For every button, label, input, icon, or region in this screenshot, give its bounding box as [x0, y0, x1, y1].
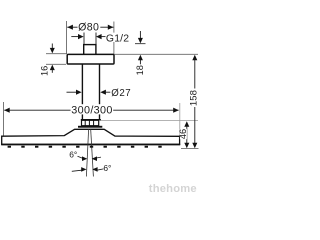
wall plate escutcheon [67, 54, 114, 64]
svg-text:158: 158 [189, 90, 200, 106]
svg-text:Ø80: Ø80 [78, 21, 99, 33]
dim 16 up arrow [50, 65, 55, 71]
dim 6deg lower left arrowhead [81, 167, 86, 172]
dim 6deg lower leader [72, 170, 82, 171]
dim 18 down arrow [139, 31, 141, 40]
nozzle row [8, 146, 162, 148]
cone nut body [82, 120, 99, 125]
dim O80 right arrowhead [108, 25, 114, 30]
dim 16 lower extension line [46, 63, 66, 65]
dim O80 left extension line [66, 21, 68, 54]
dim O27 right leader [105, 91, 110, 93]
dim 18 up arrow [138, 55, 143, 61]
dim G1/2 label [106, 33, 130, 45]
dim 18 top extension line [135, 43, 146, 45]
dim 300/300 label [71, 104, 113, 116]
dim 300/300 right arrowhead [173, 108, 179, 113]
G1/2 connector body [84, 45, 96, 55]
dim G1/2 left leader [71, 36, 78, 38]
svg-text:6°: 6° [69, 149, 77, 159]
dim G1/2 right arrowhead [96, 34, 102, 39]
dim O27 right arrowhead [100, 90, 106, 95]
dim G1/2 right leader [101, 36, 106, 38]
dim 158 top arrow [192, 55, 197, 61]
dim O80 label [78, 21, 100, 33]
dim 16 down arrow [51, 44, 53, 50]
spray axis right line (6 deg) [91, 130, 94, 177]
dim 46 top arrow [184, 121, 189, 127]
svg-text:6°: 6° [103, 163, 111, 173]
svg-text:thehome: thehome [149, 183, 197, 195]
dim O80 left arrowhead [67, 25, 73, 30]
svg-text:16: 16 [40, 66, 50, 76]
cone cap line [81, 119, 101, 121]
dim O80 dimension line [67, 26, 77, 28]
spray axis left line (6 deg) [86, 130, 88, 177]
shower head bottom face line [1, 144, 180, 146]
head top reference line (gray) [100, 119, 198, 121]
ceiling line right segment [115, 53, 198, 55]
dim 300/300 dimension line [4, 109, 70, 111]
dim O27 left arrowhead [76, 90, 82, 95]
svg-text:G1/2: G1/2 [106, 33, 129, 44]
dim O80 right extension line [113, 22, 115, 55]
dim 6deg lower right leader [97, 169, 104, 170]
dim 300/300 left extension line [3, 102, 5, 136]
svg-text:46: 46 [178, 129, 188, 139]
dim 300/300 right extension line [179, 103, 181, 136]
dim 46 bottom arrow [184, 143, 189, 149]
dim 158 dimension line lower [194, 107, 196, 145]
dim 6deg lower right arrowhead [92, 167, 97, 172]
ceiling line left segment [46, 53, 67, 55]
connector extension stub left [83, 33, 85, 46]
svg-text:300/300: 300/300 [71, 104, 112, 116]
dim 46 dimension line [186, 126, 188, 145]
svg-text:Ø27: Ø27 [111, 88, 131, 99]
pipe left wall [81, 64, 83, 119]
svg-text:18: 18 [135, 65, 145, 75]
dim 46 label (rotated) [178, 129, 188, 139]
pipe right wall [99, 64, 101, 119]
dim O27 left leader [67, 91, 77, 93]
connector extension stub right [95, 33, 97, 46]
dim 158 bottom arrow [192, 143, 197, 149]
dim 6deg upper right arrowhead [92, 156, 97, 161]
dim 158 dimension line upper [194, 60, 196, 89]
nozzle face extension line [181, 148, 199, 150]
dim 6deg upper right tail [96, 156, 101, 159]
shower head body [2, 129, 180, 144]
dim G1/2 left arrowhead [78, 34, 84, 39]
cone base flange [78, 126, 102, 128]
dim 300/300 left arrowhead [4, 108, 10, 113]
dim 6deg upper left arrowhead [82, 156, 87, 161]
cone nut ridge lines [84, 120, 86, 125]
dim 6deg upper leader [78, 156, 83, 158]
